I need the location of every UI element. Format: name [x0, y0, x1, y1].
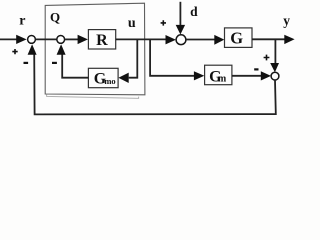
- arrowhead into S4 (from left): [261, 71, 271, 80]
- wire S1 to S2: [36, 38, 57, 40]
- arrowhead into block R: [78, 35, 88, 44]
- wire S2 to block R: [65, 38, 79, 40]
- wire G to output y: [252, 38, 285, 40]
- svg-text:u: u: [128, 16, 136, 31]
- minus sign at S4: [254, 68, 258, 70]
- input arrowhead into S1: [16, 35, 26, 44]
- feedback wire S4 to S1 (bottom path): [34, 51, 276, 114]
- wire node u down to Gmo input: [129, 39, 138, 77]
- output arrowhead y: [284, 35, 294, 44]
- svg-text:m: m: [218, 73, 227, 84]
- wire Gmo output to S2: [62, 51, 88, 77]
- minus sign at S1: [24, 62, 29, 64]
- arrowhead down into S4: [270, 63, 279, 72]
- arrowhead into Gmo (pointing left): [118, 73, 128, 83]
- summing junction S1: [28, 36, 36, 44]
- arrowhead up into S2: [57, 44, 66, 55]
- svg-text:y: y: [283, 13, 290, 28]
- plus sign at S3: [161, 20, 166, 25]
- summing junction S3: [176, 35, 186, 45]
- wire Gm to S4: [232, 75, 261, 77]
- plus sign at summing junction S1: [12, 49, 17, 54]
- d disturbance wire: [179, 2, 181, 26]
- minus sign at S2: [52, 62, 57, 64]
- wire R to S3 (node u): [116, 38, 166, 40]
- block Gm: [205, 65, 232, 85]
- summing junction S4: [271, 72, 279, 80]
- arrowhead into block G: [214, 35, 224, 45]
- svg-text:R: R: [96, 32, 108, 49]
- summing junction S2: [57, 36, 65, 44]
- svg-text:d: d: [190, 4, 198, 19]
- Q controller outer box: [45, 3, 145, 95]
- arrowhead into S3: [166, 35, 176, 44]
- block Gmo: [88, 68, 118, 87]
- arrowhead up into S1: [28, 44, 37, 55]
- svg-text:mo: mo: [104, 76, 115, 86]
- wire y branch down to S4: [274, 39, 276, 64]
- plus sign at S4: [264, 55, 270, 61]
- wire node u down to Gm input: [150, 39, 194, 75]
- outer gray box bottom edge: [47, 95, 139, 99]
- block G: [225, 28, 253, 48]
- input signal r wire: [0, 38, 17, 40]
- arrowhead d into S3: [176, 25, 185, 35]
- block R: [88, 30, 115, 49]
- arrowhead into Gm: [194, 71, 204, 80]
- svg-text:r: r: [19, 13, 25, 28]
- svg-text:G: G: [230, 28, 243, 47]
- wire S3 to block G: [186, 39, 215, 41]
- svg-text:Q: Q: [50, 9, 60, 24]
